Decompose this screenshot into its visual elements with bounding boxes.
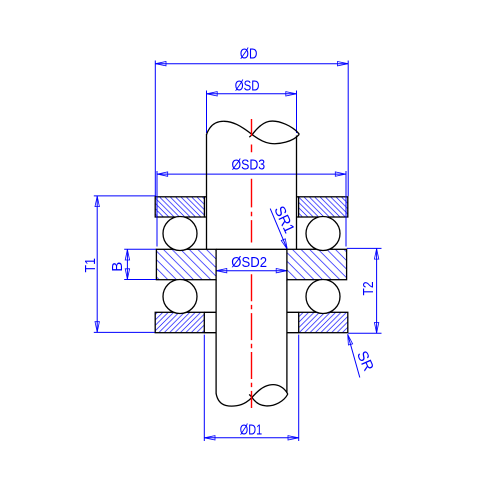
dim T2 extension line top xyxy=(347,247,382,249)
dim T1 line xyxy=(96,196,98,333)
dim ØSD2 line xyxy=(216,270,287,272)
dim ØSD3 extension over washers (redrawn) xyxy=(157,196,346,218)
arrow B bottom xyxy=(125,269,129,279)
svg-text:ØD1: ØD1 xyxy=(240,422,262,439)
arrow ØSD2 left xyxy=(216,269,226,273)
dim T2 line xyxy=(376,248,378,333)
svg-text:ØD: ØD xyxy=(240,45,258,62)
arrow T2 top xyxy=(374,249,378,259)
break line top (eye lobe) xyxy=(249,121,299,137)
bottom housing washer right (hatched) xyxy=(299,312,348,332)
arrow ØSD left xyxy=(207,92,217,96)
dim ØD1 line xyxy=(204,437,298,439)
ball lower left xyxy=(163,280,197,314)
connector bottom washer bore right xyxy=(287,312,299,332)
top housing washer right (hatched) xyxy=(299,197,348,217)
shaft lower column left edge xyxy=(215,280,217,394)
dim T2 extension line bottom xyxy=(348,332,381,334)
dim ØSD extension line left xyxy=(206,91,208,134)
leader SR1 line xyxy=(270,209,287,250)
arrow leader SR xyxy=(346,334,353,345)
connector top washer bore left xyxy=(204,197,206,217)
arrow T1 top xyxy=(95,196,99,206)
dim ØD extension line right xyxy=(347,61,349,197)
dim ØD extension line left xyxy=(154,61,156,197)
top housing washer left (hatched) xyxy=(155,197,204,217)
dim ØSD extension line right xyxy=(296,91,298,134)
dim ØSD line xyxy=(207,93,297,95)
dim T1 extension line bottom xyxy=(94,331,156,333)
dim ØSD3 line xyxy=(157,173,346,175)
shaft lower column right edge xyxy=(286,280,288,394)
shaft washer middle left (hatched) xyxy=(156,249,216,279)
break line top (S-curve) xyxy=(207,121,300,143)
arrow T1 bottom xyxy=(95,322,99,332)
svg-text:T2: T2 xyxy=(360,282,377,296)
dim ØSD3 extension line left xyxy=(156,171,158,247)
shaft upper column right edge xyxy=(296,136,298,250)
svg-text:T1: T1 xyxy=(82,258,99,273)
arrow B top xyxy=(125,250,129,260)
shaft upper column left edge xyxy=(206,134,208,249)
connector bottom washer bore left xyxy=(204,312,216,332)
svg-text:ØSD3: ØSD3 xyxy=(232,157,266,174)
connector top washer bore right xyxy=(297,197,299,217)
dim ØD1 extension line left xyxy=(203,335,205,441)
dim ØD line xyxy=(155,63,348,65)
arrow ØSD right xyxy=(286,92,296,96)
leader SR line xyxy=(348,334,360,377)
arrow ØSD3 right xyxy=(335,172,345,176)
arrow leader SR1 xyxy=(281,239,289,250)
dim B extension line top xyxy=(124,248,156,250)
dim ØD1 extension line right xyxy=(298,335,300,441)
centerline (red dash-dot axis) middle run xyxy=(251,179,253,243)
arrow ØD1 right xyxy=(288,436,298,440)
shaft washer middle right (hatched) xyxy=(287,249,347,279)
dim ØSD3 extension line right xyxy=(345,171,347,247)
arrow ØD left xyxy=(156,62,166,66)
svg-text:ØSD: ØSD xyxy=(235,77,260,94)
break line bottom (eye lobe) xyxy=(249,394,288,406)
svg-text:B: B xyxy=(109,262,126,272)
dim B extension line bottom xyxy=(124,279,156,281)
arrow T2 bottom xyxy=(374,323,378,333)
dim T1 extension line top xyxy=(94,195,156,197)
break line bottom (S-curve) xyxy=(216,385,288,406)
ball lower right xyxy=(306,280,340,314)
arrow ØSD3 left xyxy=(157,172,167,176)
arrow ØSD2 right xyxy=(276,269,286,273)
dim B line xyxy=(126,249,128,279)
arrow ØD right xyxy=(338,62,348,66)
centerline (red dash-dot axis) upper run xyxy=(251,119,253,152)
ball upper right xyxy=(306,217,340,251)
arrow ØD1 left xyxy=(205,436,215,440)
svg-text:ØSD2: ØSD2 xyxy=(231,254,267,271)
ball upper left xyxy=(163,217,197,251)
bottom housing washer left (hatched) xyxy=(155,312,204,332)
shaft shoulder line at middle washer top xyxy=(216,248,287,250)
centerline (red dash-dot axis) lower run xyxy=(251,274,253,408)
